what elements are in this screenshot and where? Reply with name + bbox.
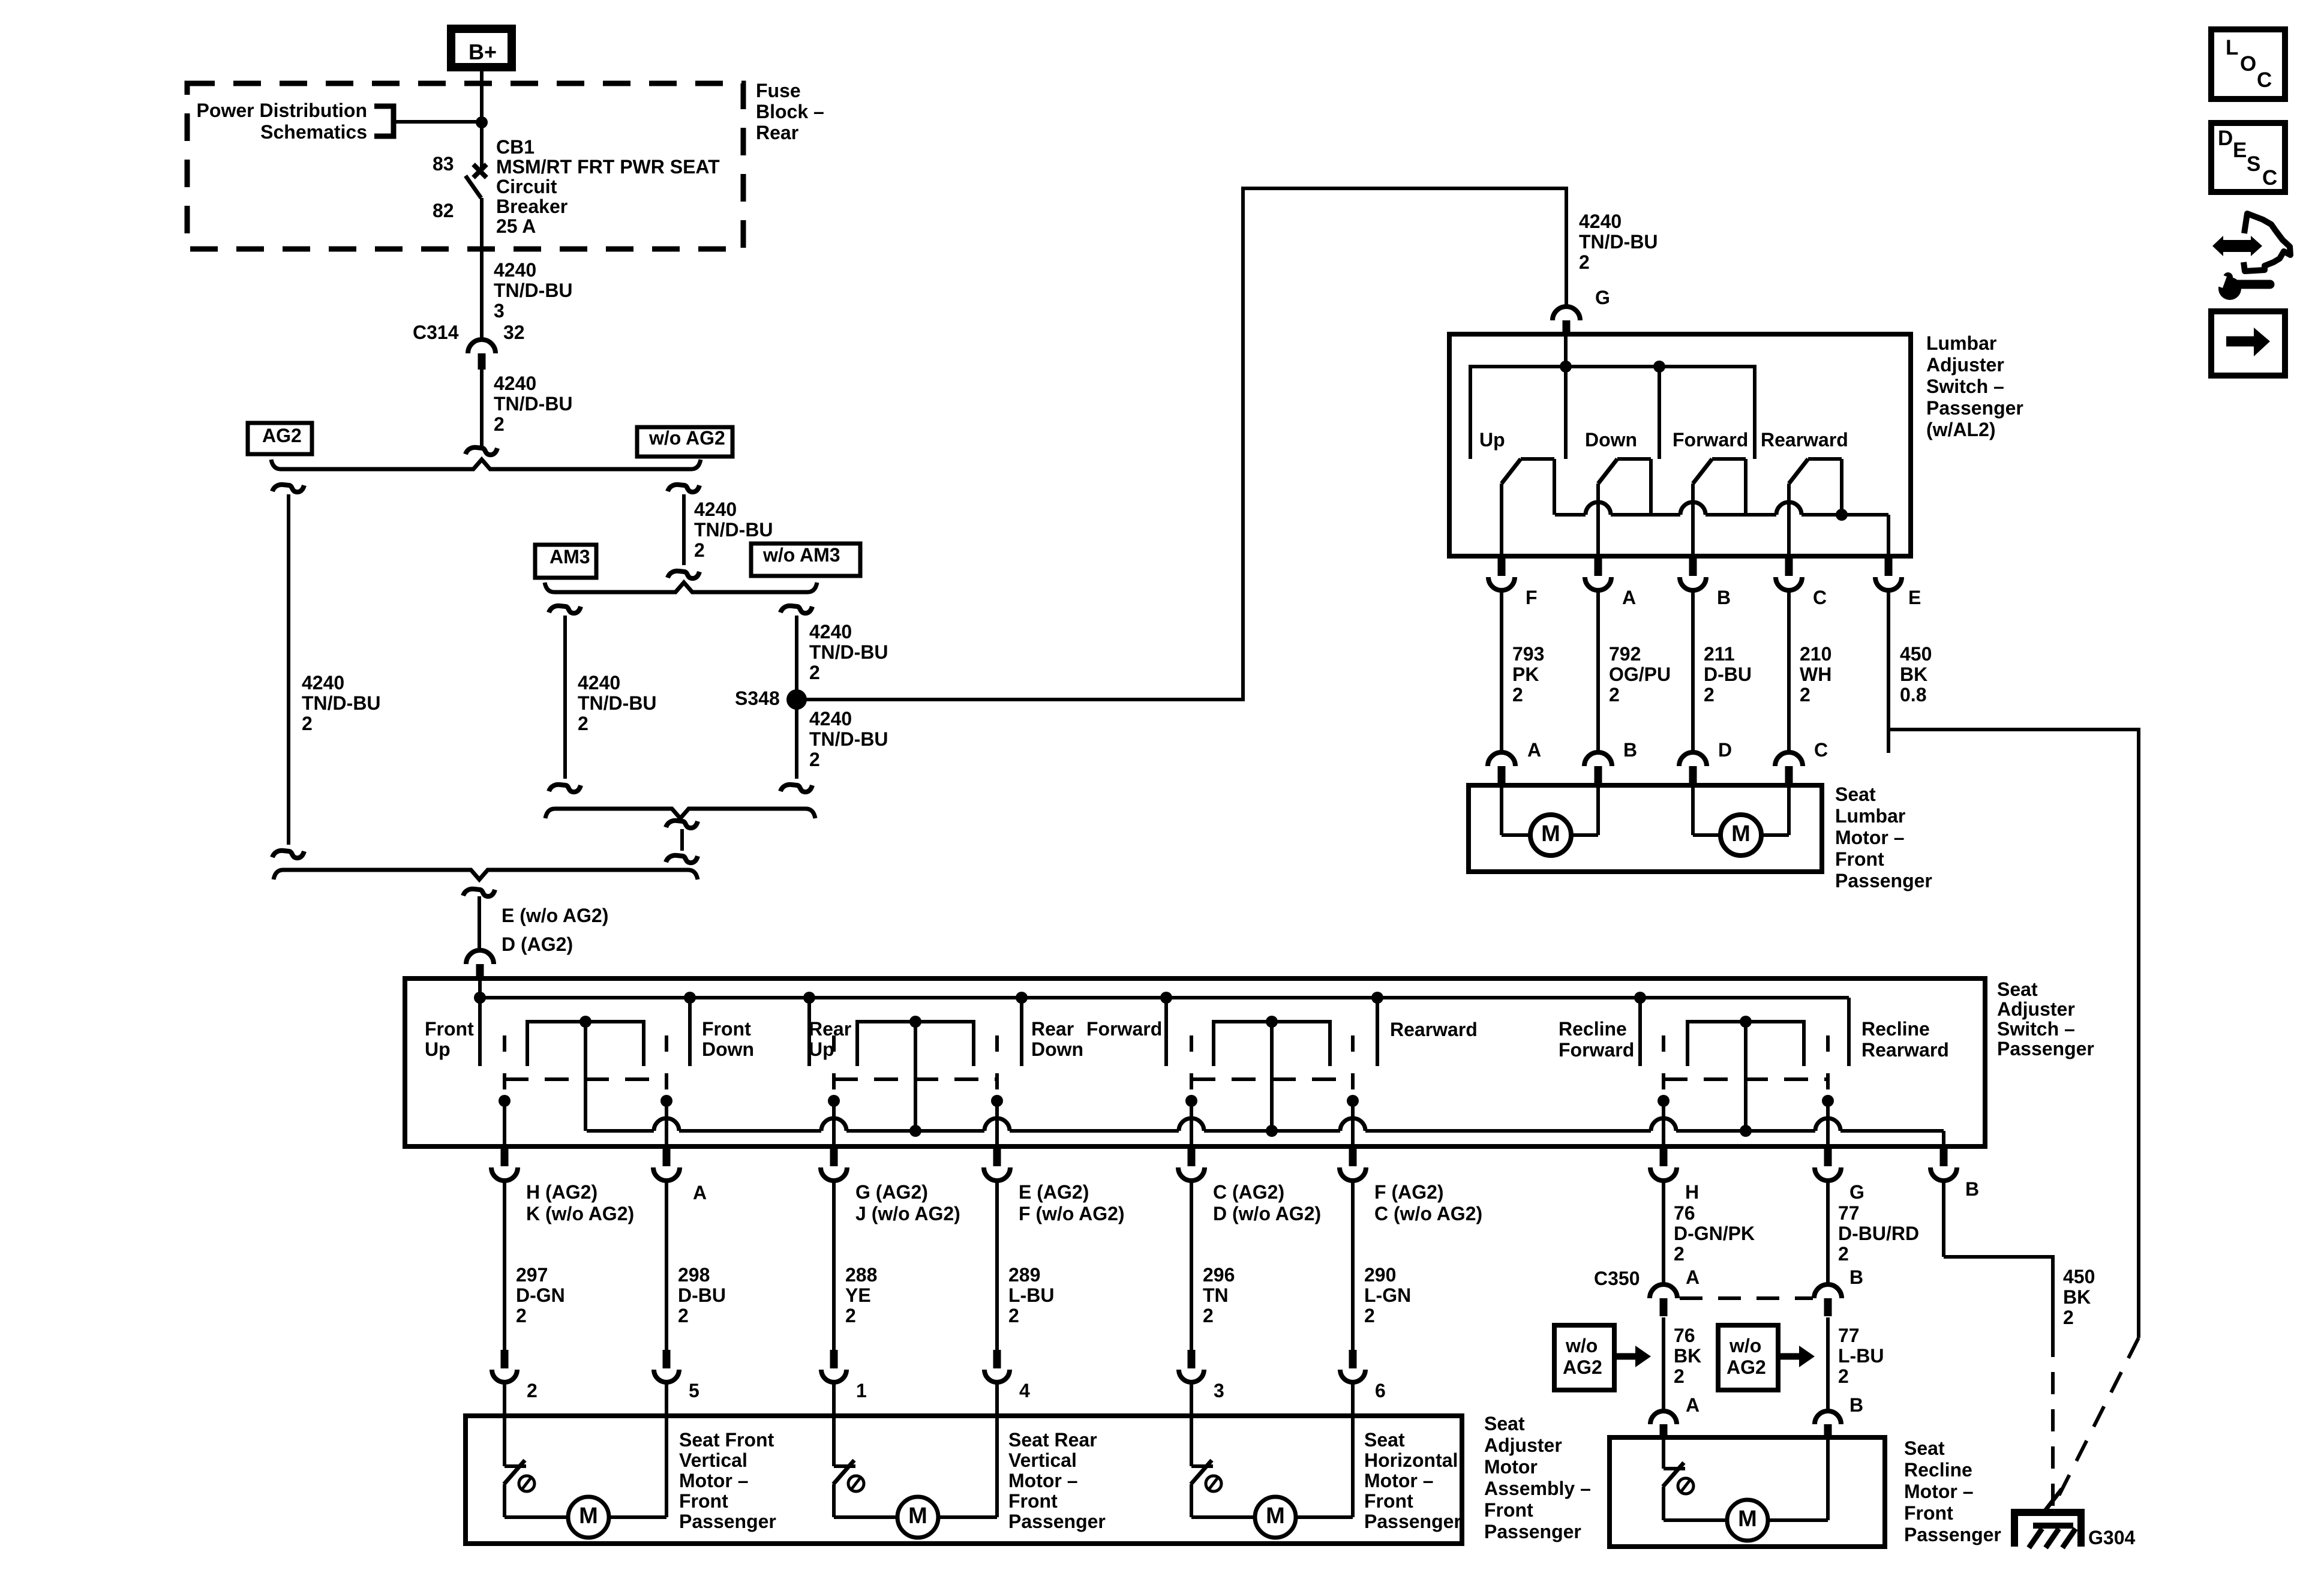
svg-text:77: 77 (1838, 1325, 1860, 1346)
svg-text:Up: Up (809, 1038, 834, 1060)
svg-text:4240: 4240 (302, 672, 344, 694)
svg-text:4240: 4240 (694, 499, 737, 520)
svg-text:2: 2 (527, 1380, 538, 1401)
svg-text:Adjuster: Adjuster (1484, 1434, 1562, 1456)
svg-text:Seat Front: Seat Front (679, 1429, 774, 1451)
svg-text:BK: BK (1674, 1345, 1701, 1367)
svg-text:Seat Rear: Seat Rear (1008, 1429, 1097, 1451)
svg-text:D: D (2218, 127, 2233, 150)
svg-text:AM3: AM3 (550, 546, 590, 568)
svg-text:Switch –: Switch – (1926, 376, 2004, 397)
svg-text:C350: C350 (1594, 1268, 1640, 1289)
svg-text:4240: 4240 (578, 672, 620, 694)
svg-text:TN/D-BU: TN/D-BU (809, 641, 888, 663)
svg-text:2: 2 (2063, 1307, 2074, 1328)
svg-text:2: 2 (1609, 684, 1620, 706)
svg-text:82: 82 (433, 200, 454, 221)
svg-text:M: M (1731, 821, 1750, 846)
svg-text:76: 76 (1674, 1325, 1695, 1346)
svg-text:290: 290 (1364, 1264, 1396, 1286)
svg-text:298: 298 (678, 1264, 710, 1286)
svg-text:M: M (1738, 1506, 1757, 1532)
svg-text:D-BU/RD: D-BU/RD (1838, 1223, 1919, 1244)
svg-text:2: 2 (1364, 1305, 1375, 1326)
svg-text:Seat: Seat (1904, 1437, 1945, 1459)
svg-text:Forward: Forward (1673, 429, 1748, 451)
svg-text:K (w/o AG2): K (w/o AG2) (526, 1203, 634, 1224)
svg-text:A: A (1686, 1266, 1700, 1288)
svg-text:C (w/o AG2): C (w/o AG2) (1374, 1203, 1482, 1224)
svg-text:Rear: Rear (1031, 1018, 1074, 1040)
svg-text:Power Distribution: Power Distribution (197, 100, 367, 121)
svg-text:Up: Up (1479, 429, 1505, 451)
svg-text:D: D (1718, 739, 1732, 761)
svg-text:BK: BK (2063, 1286, 2091, 1308)
svg-text:D-GN: D-GN (516, 1284, 565, 1306)
svg-text:Passenger: Passenger (1484, 1521, 1581, 1542)
svg-text:Front: Front (1364, 1490, 1413, 1512)
svg-text:S: S (2247, 152, 2260, 176)
svg-text:792: 792 (1609, 643, 1641, 665)
svg-text:4240: 4240 (809, 621, 852, 643)
svg-text:2: 2 (1838, 1365, 1849, 1387)
svg-text:TN/D-BU: TN/D-BU (809, 728, 888, 750)
svg-text:C: C (2262, 166, 2277, 190)
svg-text:Motor –: Motor – (679, 1470, 749, 1491)
svg-text:Passenger: Passenger (679, 1511, 776, 1532)
svg-text:Block –: Block – (756, 101, 824, 122)
svg-text:Breaker: Breaker (496, 196, 568, 217)
svg-text:Seat: Seat (1484, 1413, 1525, 1434)
svg-text:F (AG2): F (AG2) (1374, 1181, 1444, 1203)
svg-text:450: 450 (2063, 1266, 2095, 1287)
svg-text:2: 2 (1008, 1305, 1019, 1326)
svg-text:Passenger: Passenger (1835, 870, 1932, 891)
svg-text:288: 288 (845, 1264, 877, 1286)
svg-text:296: 296 (1203, 1264, 1235, 1286)
svg-text:TN: TN (1203, 1284, 1229, 1306)
svg-text:G: G (1849, 1181, 1864, 1203)
svg-text:Up: Up (425, 1038, 451, 1060)
svg-text:Recline: Recline (1861, 1018, 1930, 1040)
svg-text:J (w/o AG2): J (w/o AG2) (855, 1203, 960, 1224)
svg-text:w/o AG2: w/o AG2 (648, 427, 725, 449)
svg-text:Passenger: Passenger (1997, 1038, 2094, 1059)
svg-text:D-BU: D-BU (678, 1284, 726, 1306)
svg-text:Forward: Forward (1086, 1018, 1162, 1040)
svg-text:B: B (1849, 1266, 1863, 1288)
svg-text:C: C (1813, 587, 1827, 608)
svg-text:4240: 4240 (1579, 211, 1622, 232)
svg-text:793: 793 (1512, 643, 1544, 665)
svg-text:2: 2 (845, 1305, 856, 1326)
svg-text:Passenger: Passenger (1926, 397, 2023, 419)
svg-text:Front: Front (1904, 1502, 1953, 1524)
svg-text:2: 2 (1800, 684, 1810, 706)
svg-text:AG2: AG2 (1727, 1356, 1766, 1378)
svg-text:H: H (1685, 1181, 1699, 1203)
svg-text:BK: BK (1900, 664, 1927, 685)
svg-text:Front: Front (1484, 1499, 1533, 1521)
svg-text:TN/D-BU: TN/D-BU (1579, 231, 1658, 253)
svg-text:2: 2 (1203, 1305, 1214, 1326)
svg-text:YE: YE (845, 1284, 871, 1306)
svg-text:297: 297 (516, 1264, 548, 1286)
svg-text:D (w/o AG2): D (w/o AG2) (1213, 1203, 1321, 1224)
svg-text:Motor –: Motor – (1904, 1481, 1974, 1502)
svg-text:D-BU: D-BU (1704, 664, 1752, 685)
svg-text:2: 2 (809, 662, 820, 683)
svg-text:A: A (1527, 739, 1541, 761)
svg-text:1: 1 (856, 1380, 867, 1401)
svg-text:Horizontal: Horizontal (1364, 1449, 1458, 1471)
svg-text:Front: Front (702, 1018, 751, 1040)
svg-text:2: 2 (494, 413, 505, 435)
svg-text:289: 289 (1008, 1264, 1040, 1286)
svg-text:E (AG2): E (AG2) (1019, 1181, 1089, 1203)
svg-text:H (AG2): H (AG2) (526, 1181, 597, 1203)
svg-text:Seat: Seat (1997, 978, 2038, 1000)
svg-text:Rear: Rear (809, 1018, 851, 1040)
svg-text:M: M (579, 1503, 598, 1529)
svg-text:AG2: AG2 (1563, 1356, 1602, 1378)
svg-text:211: 211 (1704, 643, 1735, 665)
svg-text:Rear: Rear (756, 122, 798, 143)
svg-text:MSM/RT FRT PWR SEAT: MSM/RT FRT PWR SEAT (496, 156, 720, 178)
svg-text:210: 210 (1800, 643, 1831, 665)
svg-text:B: B (1717, 587, 1731, 608)
svg-text:450: 450 (1900, 643, 1932, 665)
svg-text:PK: PK (1512, 664, 1539, 685)
svg-text:w/o: w/o (1729, 1335, 1761, 1356)
svg-text:B: B (1623, 739, 1637, 761)
svg-text:B+: B+ (469, 40, 497, 64)
svg-text:OG/PU: OG/PU (1609, 664, 1671, 685)
svg-text:M: M (908, 1503, 927, 1529)
svg-text:Front: Front (679, 1490, 728, 1512)
svg-text:TN/D-BU: TN/D-BU (494, 393, 573, 415)
svg-text:D (AG2): D (AG2) (502, 933, 573, 955)
svg-text:TN/D-BU: TN/D-BU (694, 519, 773, 541)
svg-text:w/o AM3: w/o AM3 (762, 544, 840, 566)
svg-text:A: A (693, 1182, 707, 1203)
svg-text:4240: 4240 (494, 259, 536, 281)
svg-text:TN/D-BU: TN/D-BU (494, 280, 573, 301)
svg-text:2: 2 (1674, 1365, 1685, 1387)
svg-text:Seat: Seat (1835, 784, 1876, 805)
svg-text:Front: Front (1008, 1490, 1058, 1512)
svg-text:w/o: w/o (1565, 1335, 1598, 1356)
svg-text:C314: C314 (413, 322, 459, 343)
svg-text:32: 32 (503, 322, 525, 343)
svg-text:2: 2 (678, 1305, 689, 1326)
svg-text:L-BU: L-BU (1838, 1345, 1884, 1367)
svg-text:Rearward: Rearward (1861, 1039, 1949, 1061)
svg-text:WH: WH (1800, 664, 1831, 685)
svg-text:Fuse: Fuse (756, 80, 801, 101)
svg-text:Passenger: Passenger (1364, 1511, 1461, 1532)
svg-text:M: M (1266, 1503, 1285, 1529)
svg-text:B: B (1849, 1394, 1863, 1416)
svg-text:G (AG2): G (AG2) (855, 1181, 928, 1203)
svg-text:(w/AL2): (w/AL2) (1926, 419, 1996, 440)
svg-text:Front: Front (425, 1018, 474, 1040)
svg-text:6: 6 (1375, 1380, 1386, 1401)
svg-text:3: 3 (1214, 1380, 1224, 1401)
svg-text:Passenger: Passenger (1008, 1511, 1106, 1532)
svg-text:Circuit: Circuit (496, 176, 557, 197)
svg-text:Recline: Recline (1559, 1018, 1627, 1040)
svg-text:Motor –: Motor – (1008, 1470, 1078, 1491)
svg-text:Schematics: Schematics (260, 121, 367, 143)
svg-text:Rearward: Rearward (1390, 1019, 1478, 1040)
svg-text:TN/D-BU: TN/D-BU (578, 692, 657, 714)
svg-text:G304: G304 (2088, 1527, 2135, 1548)
svg-text:CB1: CB1 (496, 136, 535, 158)
svg-text:2: 2 (1512, 684, 1523, 706)
svg-text:Assembly –: Assembly – (1484, 1478, 1591, 1499)
svg-text:S348: S348 (735, 688, 780, 709)
svg-text:2: 2 (302, 713, 313, 734)
svg-text:2: 2 (1579, 251, 1590, 273)
svg-text:F (w/o AG2): F (w/o AG2) (1019, 1203, 1125, 1224)
svg-text:2: 2 (1674, 1243, 1685, 1265)
svg-text:G: G (1595, 287, 1610, 308)
svg-text:Forward: Forward (1559, 1039, 1634, 1061)
svg-text:Down: Down (1585, 429, 1637, 451)
svg-text:25 A: 25 A (496, 215, 536, 237)
svg-text:2: 2 (694, 539, 705, 561)
svg-text:C (AG2): C (AG2) (1213, 1181, 1284, 1203)
svg-text:76: 76 (1674, 1202, 1695, 1224)
svg-text:0.8: 0.8 (1900, 684, 1926, 706)
svg-text:Vertical: Vertical (1008, 1449, 1077, 1471)
svg-text:TN/D-BU: TN/D-BU (302, 692, 381, 714)
svg-text:Motor –: Motor – (1835, 827, 1905, 848)
svg-text:Rearward: Rearward (1761, 429, 1848, 451)
svg-text:B: B (1965, 1178, 1979, 1200)
svg-text:2: 2 (578, 713, 588, 734)
svg-text:5: 5 (689, 1380, 699, 1401)
svg-text:Seat: Seat (1364, 1429, 1405, 1451)
svg-text:E: E (1908, 587, 1921, 608)
svg-text:Lumbar: Lumbar (1835, 805, 1905, 827)
svg-text:Adjuster: Adjuster (1926, 354, 2004, 376)
svg-text:Motor –: Motor – (1364, 1470, 1434, 1491)
svg-text:Front: Front (1835, 848, 1884, 870)
svg-text:2: 2 (1704, 684, 1715, 706)
svg-text:4240: 4240 (809, 708, 852, 730)
svg-text:E (w/o AG2): E (w/o AG2) (502, 905, 608, 926)
svg-text:C: C (2257, 68, 2272, 92)
svg-text:Motor: Motor (1484, 1456, 1538, 1478)
svg-text:F: F (1526, 587, 1538, 608)
svg-text:E: E (2233, 139, 2247, 162)
svg-text:Passenger: Passenger (1904, 1524, 2001, 1545)
svg-text:2: 2 (809, 749, 820, 770)
svg-text:Down: Down (702, 1038, 754, 1060)
svg-text:AG2: AG2 (262, 425, 302, 446)
svg-text:Lumbar: Lumbar (1926, 332, 1996, 354)
svg-text:Switch –: Switch – (1997, 1018, 2075, 1040)
svg-text:2: 2 (516, 1305, 527, 1326)
svg-text:Recline: Recline (1904, 1459, 1972, 1481)
svg-text:L: L (2226, 36, 2238, 59)
svg-text:D-GN/PK: D-GN/PK (1674, 1223, 1755, 1244)
svg-text:4: 4 (1019, 1380, 1030, 1401)
svg-text:77: 77 (1838, 1202, 1860, 1224)
svg-text:C: C (1814, 739, 1828, 761)
svg-text:L-BU: L-BU (1008, 1284, 1054, 1306)
svg-text:4240: 4240 (494, 373, 536, 394)
svg-text:2: 2 (1838, 1243, 1849, 1265)
svg-text:Vertical: Vertical (679, 1449, 747, 1471)
svg-text:A: A (1686, 1394, 1700, 1416)
svg-text:Adjuster: Adjuster (1997, 998, 2075, 1020)
svg-text:M: M (1541, 821, 1560, 846)
svg-text:83: 83 (433, 153, 454, 175)
svg-text:O: O (2240, 52, 2256, 76)
svg-text:A: A (1622, 587, 1636, 608)
svg-text:Down: Down (1031, 1038, 1083, 1060)
svg-text:3: 3 (494, 300, 505, 322)
svg-text:L-GN: L-GN (1364, 1284, 1411, 1306)
